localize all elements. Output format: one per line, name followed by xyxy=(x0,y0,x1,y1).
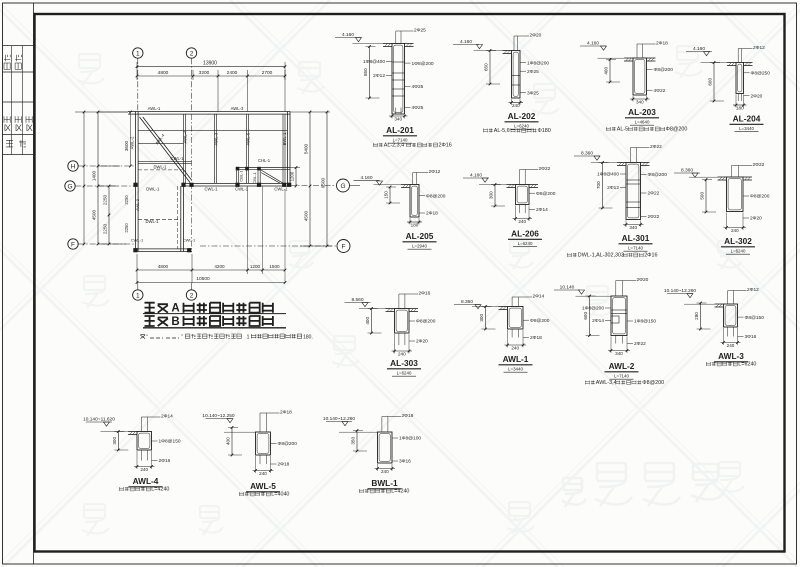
svg-text:BWL-1: BWL-1 xyxy=(371,478,398,488)
svg-text:DWL-1,AL-302,303: DWL-1,AL-302,303 xyxy=(578,253,624,259)
svg-text:2Φ18: 2Φ18 xyxy=(278,462,290,468)
svg-text:2Φ16: 2Φ16 xyxy=(439,143,452,149)
svg-text:340: 340 xyxy=(636,99,644,104)
svg-text:8.360: 8.360 xyxy=(461,299,473,305)
plan grid bubble F right xyxy=(200,240,350,253)
svg-text:600: 600 xyxy=(708,78,713,86)
svg-text:400: 400 xyxy=(226,437,231,445)
svg-text:240: 240 xyxy=(398,351,406,356)
svg-text:2Φ16: 2Φ16 xyxy=(644,253,657,259)
interior beam AWL-4 vertical xyxy=(183,114,185,183)
svg-text:2Φ20: 2Φ20 xyxy=(750,216,762,222)
svg-text:2Φ18: 2Φ18 xyxy=(656,41,668,47)
main title line 2 xyxy=(143,316,286,328)
beam section AL-201 xyxy=(335,28,452,149)
svg-text:2Φ20: 2Φ20 xyxy=(416,339,428,345)
svg-text:2Φ12: 2Φ12 xyxy=(607,185,619,191)
svg-text:1: 1 xyxy=(247,335,250,341)
svg-text:3Φ25: 3Φ25 xyxy=(527,90,539,96)
svg-text:L=6240: L=6240 xyxy=(514,123,529,128)
interior beam BWL-1 vertical xyxy=(282,114,284,183)
svg-text:2Φ25: 2Φ25 xyxy=(527,69,539,75)
svg-text:2Φ22: 2Φ22 xyxy=(648,191,660,197)
interior beam AWL-3 vertical xyxy=(214,114,216,183)
svg-text:3Φ16: 3Φ16 xyxy=(399,459,411,465)
svg-text:AWL-1: AWL-1 xyxy=(148,106,161,111)
svg-text:4800: 4800 xyxy=(158,264,169,269)
svg-text:L=6240: L=6240 xyxy=(397,370,412,375)
svg-text:2Φ22: 2Φ22 xyxy=(634,341,646,347)
svg-text:3200: 3200 xyxy=(199,70,210,76)
svg-text:8.560: 8.560 xyxy=(351,297,363,303)
svg-text:2Φ12: 2Φ12 xyxy=(373,73,385,79)
svg-text:8.360: 8.360 xyxy=(581,151,593,157)
svg-text:1200: 1200 xyxy=(290,171,295,181)
interior vertical dashed left wing xyxy=(177,186,179,249)
svg-text:650: 650 xyxy=(484,63,489,71)
svg-text:AL-205: AL-205 xyxy=(406,231,434,241)
svg-text:AWL-3,4: AWL-3,4 xyxy=(596,380,617,386)
plan grid bubble G left xyxy=(65,181,136,191)
svg-text:2Φ14: 2Φ14 xyxy=(536,207,548,213)
svg-text:3600: 3600 xyxy=(124,140,129,151)
plan grid bubble 1 bottom xyxy=(133,283,143,300)
svg-text:2Φ22: 2Φ22 xyxy=(648,214,660,220)
svg-text:3Φ16: 3Φ16 xyxy=(745,334,757,340)
svg-text:CWL-1: CWL-1 xyxy=(235,187,249,192)
svg-text:AL-206: AL-206 xyxy=(511,229,539,239)
right dimension 1200 canopy xyxy=(290,166,301,187)
svg-text:4Φ25: 4Φ25 xyxy=(412,84,424,90)
svg-text:1Φ8@400: 1Φ8@400 xyxy=(597,172,619,178)
svg-text:2Φ12: 2Φ12 xyxy=(747,287,759,293)
svg-text:L=6240: L=6240 xyxy=(738,362,756,368)
svg-text:1Φ8@150: 1Φ8@150 xyxy=(159,439,181,445)
plan note line xyxy=(140,334,312,341)
svg-text:AWL-4: AWL-4 xyxy=(183,130,188,143)
svg-text:CWL-1: CWL-1 xyxy=(131,238,144,243)
svg-text:AWL-5: AWL-5 xyxy=(246,132,251,145)
interior beam horizontal y143 xyxy=(138,143,184,145)
interior beam CWL-1 horizontal xyxy=(138,161,192,163)
svg-text:180.: 180. xyxy=(303,335,313,341)
svg-text:F: F xyxy=(71,241,75,248)
svg-text:L=4240: L=4240 xyxy=(151,487,169,493)
svg-text:AL-301: AL-301 xyxy=(622,233,650,243)
svg-text:1400: 1400 xyxy=(92,170,97,181)
svg-text:10.140~12.260: 10.140~12.260 xyxy=(664,288,696,294)
svg-text:2Φ22: 2Φ22 xyxy=(650,144,662,150)
svg-text:280: 280 xyxy=(694,312,699,320)
svg-text:300: 300 xyxy=(112,437,117,445)
svg-text:2Φ16: 2Φ16 xyxy=(159,458,171,464)
svg-text:350: 350 xyxy=(351,437,356,445)
svg-text:1: 1 xyxy=(136,50,140,57)
svg-text:DWL-1: DWL-1 xyxy=(146,187,160,192)
svg-text:2Φ22: 2Φ22 xyxy=(753,162,765,168)
svg-text:1Φ8@200: 1Φ8@200 xyxy=(582,306,604,312)
svg-text:AWL-3: AWL-3 xyxy=(214,132,219,145)
svg-text:2Φ20: 2Φ20 xyxy=(530,33,542,39)
svg-text:Φ8@200: Φ8@200 xyxy=(666,127,688,133)
svg-text:400: 400 xyxy=(604,67,609,75)
svg-text:L=7140: L=7140 xyxy=(628,245,643,250)
plan grid bubble 1 top xyxy=(133,48,143,112)
svg-text:10.140~12.250: 10.140~12.250 xyxy=(202,413,234,419)
svg-text:2: 2 xyxy=(190,50,194,57)
svg-text:1Φ8@400: 1Φ8@400 xyxy=(363,59,385,65)
beam section AL-301 xyxy=(567,144,667,259)
svg-text:240: 240 xyxy=(381,469,389,474)
svg-text:4.160: 4.160 xyxy=(470,173,482,179)
svg-text:2Φ20: 2Φ20 xyxy=(751,93,763,99)
svg-text:AWL-1: AWL-1 xyxy=(503,354,529,364)
svg-text:L=3440: L=3440 xyxy=(739,126,754,131)
plan grid bubble 2 top xyxy=(186,48,196,112)
svg-text:2250: 2250 xyxy=(124,223,129,233)
svg-text:G: G xyxy=(340,183,345,190)
svg-text:L=6240: L=6240 xyxy=(731,248,746,253)
svg-text:1500: 1500 xyxy=(269,264,280,269)
svg-text:500: 500 xyxy=(700,192,705,200)
svg-text:8.360: 8.360 xyxy=(681,168,693,174)
svg-text:B: B xyxy=(171,316,179,328)
beam section AL-302 xyxy=(674,162,770,254)
svg-text:10.140: 10.140 xyxy=(560,285,575,291)
svg-text:AL-204: AL-204 xyxy=(733,114,761,124)
svg-text:L=4040: L=4040 xyxy=(271,492,289,498)
plan top edge extension and outer-most chain xyxy=(75,111,128,246)
column squares G line xyxy=(133,183,291,187)
svg-text:4Φ22: 4Φ22 xyxy=(654,88,666,94)
beam section AWL-2 xyxy=(554,277,664,386)
svg-text:150: 150 xyxy=(384,191,389,199)
svg-text:4.160: 4.160 xyxy=(360,175,372,181)
svg-text:L=2940: L=2940 xyxy=(412,243,427,248)
svg-text:AL-5,6: AL-5,6 xyxy=(494,128,510,134)
svg-text:4500: 4500 xyxy=(92,209,97,220)
svg-text:850: 850 xyxy=(363,68,368,76)
svg-text:AL-2,3,4: AL-2,3,4 xyxy=(384,143,404,149)
svg-text:4.160: 4.160 xyxy=(460,39,472,45)
interior dashed beam DWL-1 lower xyxy=(138,218,181,220)
right dimension chain 5400 4500 xyxy=(290,111,330,248)
svg-text:CWL-1: CWL-1 xyxy=(170,156,184,161)
canopy beam CHL-1 xyxy=(236,168,290,184)
svg-text:180: 180 xyxy=(411,222,419,227)
svg-text:Φ8@200: Φ8@200 xyxy=(426,193,446,199)
beam section AWL-3 xyxy=(664,287,764,368)
beam section AWL-5 xyxy=(202,410,297,498)
svg-text:240: 240 xyxy=(259,471,267,476)
svg-text:Φ8@200: Φ8@200 xyxy=(416,319,436,325)
plan grid bubble G right xyxy=(290,179,360,192)
svg-text:2250: 2250 xyxy=(124,195,129,205)
beam section BWL-1 xyxy=(323,413,421,495)
svg-text:2Φ12: 2Φ12 xyxy=(753,45,765,51)
svg-text:2Φ14: 2Φ14 xyxy=(533,294,545,300)
bottom dimension chain 4800 4200 1200 1500 xyxy=(136,186,287,283)
interior beam AWL-5 vertical xyxy=(246,114,248,183)
plan grid bubble 2 bottom xyxy=(186,283,196,300)
svg-text:340: 340 xyxy=(615,351,623,356)
beam section AL-203 xyxy=(580,41,687,133)
watermark logos xyxy=(77,46,744,536)
top dimension chain 4800 3200 2400 2700 xyxy=(136,62,287,112)
svg-text:240: 240 xyxy=(512,103,520,108)
svg-text:AWL-3: AWL-3 xyxy=(718,351,744,361)
svg-text:Φ8@200: Φ8@200 xyxy=(278,441,298,447)
svg-text:Φ180: Φ180 xyxy=(538,128,551,134)
svg-text:700: 700 xyxy=(596,181,601,189)
svg-text:400: 400 xyxy=(365,317,370,325)
svg-text:4200: 4200 xyxy=(214,264,225,269)
svg-text:Φ8@200: Φ8@200 xyxy=(648,172,668,178)
svg-text:CWL-1: CWL-1 xyxy=(204,187,218,192)
svg-text:2Φ25: 2Φ25 xyxy=(414,28,426,34)
building outline walls xyxy=(128,112,290,252)
beam section AWL-1 xyxy=(454,294,550,373)
svg-text:240: 240 xyxy=(140,467,148,472)
svg-text:5400: 5400 xyxy=(304,143,309,154)
svg-text:AL-303: AL-303 xyxy=(390,358,418,368)
sign-off strip table xyxy=(3,3,34,564)
svg-text:2Φ18: 2Φ18 xyxy=(530,335,542,341)
svg-text:AWL-4: AWL-4 xyxy=(133,476,159,486)
svg-text:2250: 2250 xyxy=(103,194,108,205)
svg-text:4800: 4800 xyxy=(158,70,169,76)
svg-text:A: A xyxy=(171,303,179,315)
svg-text:2Φ22: 2Φ22 xyxy=(539,166,551,172)
svg-text:4.160: 4.160 xyxy=(587,41,599,47)
svg-text:AL-203: AL-203 xyxy=(628,107,656,117)
svg-text:4.160: 4.160 xyxy=(342,32,354,38)
svg-text:10.140~12.260: 10.140~12.260 xyxy=(323,416,355,422)
svg-text:G: G xyxy=(67,183,72,190)
svg-text:BWL-1: BWL-1 xyxy=(282,132,287,145)
svg-text:L=7140: L=7140 xyxy=(393,137,408,142)
svg-text:CBL-1: CBL-1 xyxy=(239,170,244,182)
svg-text:F: F xyxy=(342,243,346,250)
svg-text:AL-202: AL-202 xyxy=(508,111,536,121)
svg-text:H: H xyxy=(71,163,76,170)
svg-text:CHL-1: CHL-1 xyxy=(258,158,271,163)
svg-text:2Φ14: 2Φ14 xyxy=(161,414,173,420)
svg-text:L=7140: L=7140 xyxy=(614,373,629,378)
svg-text:240: 240 xyxy=(727,343,735,348)
plan grid bubble F left xyxy=(68,239,134,249)
svg-text:1Φ8@200: 1Φ8@200 xyxy=(412,61,434,67)
svg-text:9500: 9500 xyxy=(321,177,326,188)
svg-text:Φ8@200: Φ8@200 xyxy=(654,67,674,73)
svg-text:AL-5: AL-5 xyxy=(617,127,628,133)
svg-text:AWL-3: AWL-3 xyxy=(231,106,244,111)
svg-text:1200: 1200 xyxy=(250,264,261,269)
svg-text:340: 340 xyxy=(394,116,402,121)
svg-text:2700: 2700 xyxy=(262,70,273,76)
beam section AL-205 xyxy=(354,169,446,249)
svg-text:Φ8@200: Φ8@200 xyxy=(536,191,556,197)
svg-text:1Φ8@100: 1Φ8@100 xyxy=(399,436,421,442)
svg-text:AL-201: AL-201 xyxy=(386,125,414,135)
svg-text:2: 2 xyxy=(190,292,194,299)
svg-text:2Φ18: 2Φ18 xyxy=(280,410,292,416)
svg-text:4500: 4500 xyxy=(304,210,309,221)
svg-text:1Φ8@150: 1Φ8@150 xyxy=(634,319,656,325)
svg-text:600: 600 xyxy=(583,312,588,320)
svg-text:2Φ18: 2Φ18 xyxy=(402,413,414,419)
beam section AL-303 xyxy=(345,291,436,377)
svg-text:L=3440: L=3440 xyxy=(508,366,523,371)
left dimension chain outer xyxy=(92,111,129,246)
svg-text:Φ8@150: Φ8@150 xyxy=(745,315,765,321)
svg-text:1: 1 xyxy=(136,292,140,299)
svg-text:2Φ20: 2Φ20 xyxy=(637,277,649,283)
svg-text:L=6240: L=6240 xyxy=(518,241,533,246)
svg-text:CWL-1: CWL-1 xyxy=(183,238,196,243)
svg-text:DWL-1: DWL-1 xyxy=(145,219,159,224)
svg-text:340: 340 xyxy=(629,225,637,230)
svg-text:240: 240 xyxy=(511,345,519,350)
beam section AL-202 xyxy=(453,33,551,135)
svg-text:L=4240: L=4240 xyxy=(391,489,409,495)
interior beam horizontal y130 xyxy=(138,130,287,132)
svg-text:2400: 2400 xyxy=(227,70,238,76)
plan grid bubble H left xyxy=(68,161,136,171)
svg-text:240: 240 xyxy=(518,219,526,224)
svg-text:2Φ16: 2Φ16 xyxy=(419,291,431,297)
column squares canopy line xyxy=(236,167,261,171)
beam section AWL-4 xyxy=(83,414,181,493)
right dimension 9500 xyxy=(300,111,332,248)
svg-text:300: 300 xyxy=(479,314,484,322)
svg-text:2250: 2250 xyxy=(103,223,108,234)
interior dashed beam DWL-2 xyxy=(138,169,184,171)
svg-text:2Φ14: 2Φ14 xyxy=(592,318,604,324)
main title line 1 xyxy=(143,303,286,315)
grid line 2 in plan xyxy=(191,114,193,249)
svg-text:1Φ8@200: 1Φ8@200 xyxy=(527,60,549,66)
svg-text:10500: 10500 xyxy=(196,276,210,282)
svg-text:CWL-1: CWL-1 xyxy=(274,187,288,192)
svg-text:300: 300 xyxy=(489,191,494,199)
svg-text:AL-302: AL-302 xyxy=(724,236,752,246)
svg-text:Φ8@200: Φ8@200 xyxy=(642,380,664,386)
svg-text:DWL-1: DWL-1 xyxy=(153,164,167,169)
svg-text:Φ8@200: Φ8@200 xyxy=(530,318,550,324)
svg-text:Φ8@250: Φ8@250 xyxy=(751,71,771,77)
svg-text:AWL-2: AWL-2 xyxy=(609,361,635,371)
svg-text:4.160: 4.160 xyxy=(693,46,705,52)
beam section AL-206 xyxy=(463,166,556,247)
svg-text:10.140~11.620: 10.140~11.620 xyxy=(83,417,115,423)
svg-text:AWL-5: AWL-5 xyxy=(250,481,276,491)
svg-text:2Φ18: 2Φ18 xyxy=(426,211,438,217)
stair diagonal xyxy=(140,117,192,183)
beam section AL-204 xyxy=(686,45,770,132)
top dimension 13900 xyxy=(136,61,287,68)
column squares bottom wall xyxy=(133,248,191,252)
svg-text:13900: 13900 xyxy=(203,61,217,67)
svg-text:AWL-2: AWL-2 xyxy=(135,198,140,211)
svg-text:2Φ12: 2Φ12 xyxy=(429,169,441,175)
bottom dimension 10500 xyxy=(136,276,287,284)
svg-text:180: 180 xyxy=(736,105,744,110)
svg-text:240: 240 xyxy=(731,228,739,233)
svg-text:4Φ25: 4Φ25 xyxy=(412,105,424,111)
svg-text:Φ8@200: Φ8@200 xyxy=(750,194,770,200)
svg-text:CBL-1: CBL-1 xyxy=(252,172,257,184)
svg-text:L=4640: L=4640 xyxy=(635,119,650,124)
left dimension chain inner 2250 xyxy=(103,185,111,246)
